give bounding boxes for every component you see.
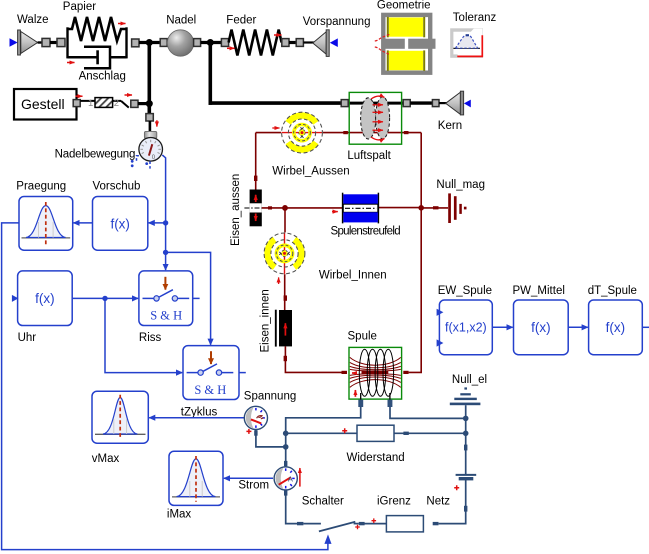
source Vorspannung: blue arrow bbox=[330, 38, 338, 47]
gauge needle bbox=[149, 144, 152, 155]
airgap ellipse left bbox=[361, 98, 376, 139]
riss trigger arrow bbox=[164, 277, 166, 290]
wire: feder to vorspannung bbox=[289, 41, 296, 44]
pin dash battery bottom bbox=[464, 506, 467, 512]
red arrow papier bottom bbox=[67, 62, 75, 64]
wire: spannung gauge drop bbox=[256, 430, 286, 447]
svg-text:Nadel: Nadel bbox=[166, 14, 196, 26]
wire: branch to tZyklus top bbox=[166, 252, 211, 344]
svg-text:Widerstand: Widerstand bbox=[347, 452, 405, 464]
resistor Widerstand bbox=[357, 425, 394, 441]
block Riss (S&H) bbox=[139, 271, 193, 326]
thick wire: to Luftspalt bbox=[209, 101, 343, 105]
gauge ticks bbox=[140, 140, 161, 154]
leakage Spulenstreufeld bbox=[343, 193, 379, 224]
node: signal junction branch bbox=[163, 250, 168, 255]
praegung axis bbox=[22, 237, 71, 239]
wire: ground down bbox=[465, 405, 467, 418]
pin dash battery top bbox=[464, 445, 467, 451]
svg-text:Null_el: Null_el bbox=[452, 374, 487, 386]
svg-text:Eisen_innen: Eisen_innen bbox=[260, 289, 272, 352]
svg-text:Eisen_aussen: Eisen_aussen bbox=[230, 174, 242, 246]
svg-text:Toleranz: Toleranz bbox=[453, 12, 497, 24]
block Geometrie bbox=[383, 15, 430, 73]
red arrow spulenstreufeld bbox=[332, 211, 338, 213]
flange gestell bbox=[73, 100, 80, 107]
block iMax bbox=[169, 451, 223, 505]
riss output stub bbox=[193, 297, 200, 299]
wire: strom down to switch bbox=[286, 490, 297, 524]
svg-text:Schalter: Schalter bbox=[302, 495, 344, 507]
source Vorspannung: bar bbox=[326, 30, 329, 57]
battery red plus bbox=[454, 485, 459, 490]
block tZyklus (S&H) bbox=[183, 346, 239, 400]
flange feder right bbox=[282, 39, 289, 47]
red plus igrenz bbox=[372, 518, 377, 523]
node: mag junction bbox=[282, 205, 288, 211]
node junction right bbox=[207, 39, 214, 46]
wire: junction down to flange bbox=[148, 104, 152, 115]
svg-text:2: 2 bbox=[114, 98, 119, 109]
flange luftspalt left bbox=[341, 100, 348, 107]
flange feder left bbox=[221, 39, 228, 47]
ground Null_el bbox=[464, 387, 467, 389]
wire: widerstand row bbox=[286, 432, 466, 434]
block Vorschub bbox=[93, 197, 148, 251]
tzyklus trigger arrow bbox=[210, 351, 212, 364]
pin dash spule right bbox=[403, 371, 408, 374]
flange b bbox=[57, 38, 65, 46]
svg-text:Wirbel_Aussen: Wirbel_Aussen bbox=[272, 166, 349, 178]
meter Spannung bbox=[244, 406, 267, 435]
svg-text:1: 1 bbox=[88, 98, 93, 109]
svg-text:Feder: Feder bbox=[226, 14, 256, 26]
resistor iGrenz bbox=[386, 516, 423, 532]
wire: branch to tZyklus bbox=[105, 298, 182, 372]
block vMax bbox=[92, 391, 148, 443]
ground Null_mag bbox=[448, 193, 451, 223]
wire: flange to cone bbox=[303, 41, 314, 43]
mass Nadel sphere bbox=[167, 30, 193, 56]
svg-text:vMax: vMax bbox=[92, 453, 120, 465]
wire: spule left pin down and across bbox=[286, 407, 361, 467]
block PW_Mittel bbox=[514, 300, 569, 355]
svg-text:f(x): f(x) bbox=[531, 320, 551, 335]
wire: into Vorschub bbox=[149, 222, 166, 224]
spring-damper Papier: left rail bbox=[66, 27, 68, 58]
node: signal junction at Vorschub bbox=[163, 220, 168, 225]
red arrow wirbel_aussen bbox=[272, 127, 279, 129]
wire: Praegung output to Schalter control bbox=[2, 223, 328, 550]
svg-text:Luftspalt: Luftspalt bbox=[347, 150, 391, 162]
svg-text:Riss: Riss bbox=[139, 332, 162, 344]
pin dash eisen_innen top bbox=[284, 295, 287, 300]
eisen_aussen red arrows bbox=[255, 195, 257, 202]
uhr input arrow bbox=[12, 295, 19, 302]
pin dash eisen_aussen top bbox=[254, 176, 257, 181]
spring-damper Papier: right rail bbox=[125, 27, 127, 58]
svg-text:Wirbel_Innen: Wirbel_Innen bbox=[319, 270, 387, 282]
eddy Wirbel_Aussen: wire left bbox=[256, 132, 281, 134]
praegung bell bbox=[26, 206, 66, 238]
wire: EW to PW bbox=[492, 326, 512, 328]
junction mech lower bbox=[146, 100, 153, 107]
wire: sensor output down bbox=[162, 155, 165, 270]
red arrow anschlag left bbox=[76, 95, 83, 97]
source Kern: blue arrow bbox=[464, 100, 471, 108]
node junction left bbox=[146, 39, 153, 46]
iron Eisen_innen: side line bbox=[275, 310, 277, 347]
svg-text:S & H: S & H bbox=[150, 309, 182, 323]
wire: PW to dT bbox=[568, 326, 588, 328]
wire: junction to Null_mag bbox=[421, 207, 448, 209]
node: spannung join bbox=[283, 444, 289, 450]
elastogap hatched box bbox=[95, 98, 113, 108]
svg-text:f(x): f(x) bbox=[35, 291, 55, 306]
thick wire: right node down bbox=[209, 43, 213, 105]
eddy Wirbel_Innen: body bbox=[264, 232, 306, 274]
spule red arrows bbox=[352, 372, 357, 374]
wire: spulenstreufeld to riser bbox=[378, 207, 421, 209]
svg-text:Uhr: Uhr bbox=[18, 332, 37, 344]
wire: Vorschub to Praegung bbox=[74, 222, 93, 224]
wire: papier to node bbox=[139, 41, 162, 44]
frame Gestell bbox=[14, 89, 77, 120]
source Walze: cone bbox=[21, 32, 38, 54]
wire: flange to sensor bbox=[149, 121, 152, 133]
red plus widerstand bbox=[342, 428, 347, 433]
svg-text:f(x): f(x) bbox=[110, 216, 130, 231]
wire: flange to flange bbox=[50, 41, 57, 44]
flange luftspalt right bbox=[403, 100, 410, 107]
source Vorspannung: cone bbox=[313, 32, 326, 54]
svg-text:iMax: iMax bbox=[167, 508, 192, 520]
pin dash spule left bbox=[342, 371, 348, 374]
wire: spule right to corner riser bbox=[409, 133, 422, 373]
wire: wirbel_innen down to eisen_innen bbox=[284, 274, 286, 310]
flange nadel right bbox=[194, 39, 201, 47]
pin dash strom top bbox=[284, 461, 287, 466]
source Walze: blue input arrow bbox=[10, 38, 18, 46]
iron Eisen_innen: body bbox=[279, 310, 292, 346]
node: right top bbox=[463, 416, 469, 422]
svg-text:f(x1,x2): f(x1,x2) bbox=[445, 321, 487, 335]
wire: right riser bbox=[465, 418, 467, 474]
wire: eisen_innen to spule bbox=[285, 346, 342, 372]
red arrow anschlag right bbox=[125, 94, 133, 96]
wire: Strom to iMax bbox=[224, 477, 273, 479]
block Toleranz bbox=[450, 28, 483, 58]
damper cylinder bbox=[84, 47, 110, 69]
flange anschlag right bbox=[131, 100, 138, 107]
flange kern bbox=[432, 100, 439, 107]
pin dash widerstand right bbox=[403, 432, 408, 435]
wire: junction down to Wirbel_Innen bbox=[284, 208, 286, 233]
source Walze: mounting bar bbox=[18, 30, 21, 55]
svg-text:A: A bbox=[288, 475, 293, 484]
praegung sigma lines bbox=[38, 222, 40, 238]
wire: flange to kern cone bbox=[439, 102, 447, 104]
svg-text:Vorschub: Vorschub bbox=[93, 180, 141, 192]
wire: luftspalt to kern bbox=[410, 101, 432, 104]
sensor Nadelbewegung: gauge face bbox=[139, 138, 163, 162]
node: mag junction right bbox=[418, 205, 424, 211]
svg-text:Praegung: Praegung bbox=[16, 180, 66, 192]
meter Strom bbox=[274, 467, 297, 496]
eisen_innen red arrow bbox=[284, 323, 286, 335]
node: junction uhr out bbox=[102, 296, 107, 301]
battery Netz: plates bbox=[456, 474, 477, 476]
switch Schalter bbox=[297, 522, 303, 525]
schalter control arrow bbox=[324, 534, 331, 544]
svg-text:Gestell: Gestell bbox=[21, 96, 65, 112]
svg-text:iGrenz: iGrenz bbox=[377, 495, 411, 507]
svg-text:dT_Spule: dT_Spule bbox=[588, 285, 637, 297]
airgap ellipse right bbox=[376, 97, 390, 139]
block Praegung bbox=[19, 197, 73, 251]
sensor dashed output bottom bbox=[149, 161, 151, 168]
red arrow feder left bbox=[227, 47, 235, 49]
spring Feder bbox=[229, 30, 282, 56]
block EW_Spule bbox=[439, 300, 492, 355]
red arrow strom bbox=[299, 468, 301, 487]
flange a bbox=[42, 38, 50, 46]
node: right widerstand bbox=[463, 431, 469, 437]
svg-text:Geometrie: Geometrie bbox=[377, 0, 431, 11]
flange nadel left bbox=[160, 39, 167, 47]
elastogap blade bbox=[121, 101, 129, 108]
wire: Spannung to vMax bbox=[149, 417, 246, 419]
eddy Wirbel_Aussen: wire right to corner bbox=[323, 132, 421, 134]
elastogap Anschlag: rod bbox=[80, 100, 121, 102]
riss switch bbox=[143, 297, 154, 299]
airgap Luftspalt: green frame bbox=[349, 92, 401, 144]
iron Eisen_aussen: body bbox=[250, 190, 262, 227]
block Uhr bbox=[18, 271, 73, 326]
praegung red dashed center bbox=[45, 202, 47, 246]
svg-text:Spannung: Spannung bbox=[244, 390, 296, 402]
svg-text:Netz: Netz bbox=[426, 495, 450, 507]
svg-text:Null_mag: Null_mag bbox=[436, 179, 485, 191]
block dT_Spule bbox=[589, 300, 643, 355]
svg-text:f(x): f(x) bbox=[606, 320, 626, 335]
red arrow wirbel_innen bbox=[278, 277, 280, 284]
flange vorspannung bbox=[296, 39, 303, 47]
wire: spule right pin down and across bbox=[390, 407, 466, 419]
svg-text:Spule: Spule bbox=[348, 331, 377, 343]
airgap red arrows bbox=[371, 96, 385, 140]
spule core bar bbox=[362, 371, 389, 374]
svg-text:PW_Mittel: PW_Mittel bbox=[513, 285, 565, 297]
svg-text:Nadelbewegung: Nadelbewegung bbox=[55, 148, 136, 160]
node: left col top bbox=[283, 431, 289, 437]
svg-text:Anschlag: Anschlag bbox=[79, 71, 126, 83]
wire: nadel to feder bbox=[201, 41, 222, 44]
flange c bbox=[132, 39, 139, 47]
wire: anschlag to junction bbox=[138, 102, 149, 105]
source Kern: bar bbox=[460, 91, 463, 115]
red arrow sensor down bbox=[156, 120, 158, 126]
source Kern: cone bbox=[446, 92, 461, 114]
spule flux lines bbox=[350, 357, 401, 387]
pin dash null_mag bbox=[433, 206, 439, 209]
spring-damper Papier: spring branch bbox=[68, 17, 127, 41]
tzyklus output stub bbox=[239, 372, 246, 374]
sensor Nadelbewegung: cylinder cap bbox=[144, 131, 156, 138]
svg-text:Spulenstreufeld: Spulenstreufeld bbox=[331, 226, 401, 238]
wire: eisen_aussen to junction to spulenstreufeld bbox=[262, 207, 343, 209]
wire: Uhr to Riss bbox=[72, 297, 138, 299]
svg-text:Kern: Kern bbox=[438, 120, 462, 132]
damper piston bbox=[96, 50, 99, 64]
svg-text:tZyklus: tZyklus bbox=[181, 406, 218, 418]
svg-text:EW_Spule: EW_Spule bbox=[438, 285, 492, 297]
tzyklus switch bbox=[187, 372, 198, 374]
wire: Walze to flange bbox=[38, 41, 42, 43]
thick wire: left node down bbox=[148, 43, 152, 104]
pin dashes luftspalt mag bbox=[343, 131, 348, 134]
svg-text:Vorspannung: Vorspannung bbox=[303, 16, 371, 28]
flange sensor bbox=[146, 114, 153, 121]
wire: dT output stub bbox=[642, 326, 649, 328]
red arrow feder right bbox=[274, 34, 282, 36]
svg-text:Walze: Walze bbox=[17, 14, 49, 26]
airgap Luftspalt: through line bbox=[348, 102, 404, 105]
coil Spule: green frame bbox=[349, 347, 402, 399]
damper link right bbox=[110, 56, 127, 59]
red arrow papier top bbox=[118, 23, 126, 25]
svg-text:Strom: Strom bbox=[238, 479, 269, 491]
svg-text:Papier: Papier bbox=[63, 1, 96, 13]
eddy Wirbel_Aussen: body bbox=[281, 112, 323, 154]
wire: wirbel_aussen down to Eisen_aussen bbox=[255, 133, 257, 191]
svg-text:S & H: S & H bbox=[194, 383, 226, 397]
wire: battery down to bottom bbox=[439, 479, 466, 524]
damper Anschlag branch: rod left bbox=[68, 56, 97, 59]
spule winding bbox=[359, 349, 393, 400]
sensor dashed output left bbox=[137, 156, 139, 163]
spule electrical pins bbox=[358, 400, 363, 407]
